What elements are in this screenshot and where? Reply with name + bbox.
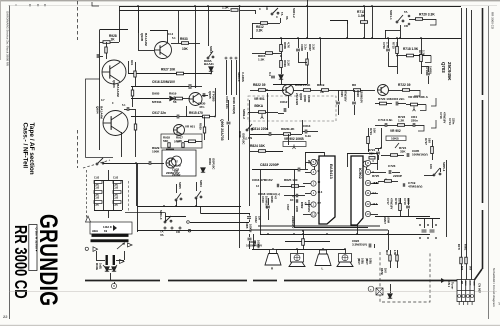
- svg-text:1000M: 1000M: [248, 224, 252, 233]
- scan top edge band: [0, 0, 500, 1]
- svg-text:VA: VA: [160, 233, 164, 237]
- page rule line top: [8, 5, 497, 7]
- svg-text:IC902: IC902: [358, 168, 363, 179]
- svg-text:C713 6.8n: C713 6.8n: [378, 118, 393, 122]
- wire S901-4: [165, 213, 167, 223]
- svg-text:C714: C714: [448, 118, 452, 125]
- svg-text:100M/16(V): 100M/16(V): [412, 153, 428, 157]
- svg-text:47: 47: [273, 196, 277, 200]
- wire H drops: [176, 184, 178, 193]
- svg-text:D90F: D90F: [238, 131, 242, 138]
- contact y231: [188, 229, 191, 232]
- wire x347: [347, 20, 349, 38]
- wire drop x138: [138, 6, 140, 33]
- wire rail V3: [471, 10, 473, 280]
- wire Q802 emitter: [288, 96, 290, 106]
- svg-text:R91: R91: [130, 60, 134, 66]
- wire row y62: [298, 62, 307, 64]
- svg-text:13: 13: [366, 212, 370, 216]
- svg-text:C717: C717: [386, 198, 390, 205]
- wire x135 drop: [135, 109, 137, 157]
- capacitor C815 symbol: [336, 102, 340, 104]
- order number box: [29, 225, 37, 271]
- wire H left border: [137, 163, 139, 232]
- svg-text:BA1A4M: BA1A4M: [100, 106, 104, 119]
- svg-text:C.92: C.92: [94, 177, 100, 180]
- wire R812 row: [252, 23, 261, 25]
- svg-text:CN 907: CN 907: [478, 283, 482, 293]
- svg-text:R725: R725: [372, 174, 380, 178]
- svg-text:Q904: Q904: [96, 106, 100, 114]
- svg-text:R824 33K: R824 33K: [250, 144, 265, 148]
- resistor R927 10K: [177, 72, 184, 75]
- switch S906: [96, 158, 104, 165]
- capacitor bar C2: [113, 255, 115, 265]
- svg-text:220M/: 220M/: [172, 173, 181, 177]
- wire x249 b: [249, 100, 251, 206]
- svg-text:3.3M/25(V): 3.3M/25(V): [352, 243, 367, 247]
- component X: [376, 288, 383, 295]
- transistor Q90B: [155, 42, 172, 59]
- jack J2 frame: [347, 153, 377, 155]
- svg-text:C822: C822: [254, 216, 258, 223]
- page right rule: [488, 6, 490, 319]
- resistor matrix block: [94, 181, 121, 204]
- svg-text:47n: 47n: [199, 105, 204, 109]
- svg-text:3.3K: 3.3K: [256, 29, 263, 33]
- capacitor C9xx at 249: [247, 217, 251, 219]
- speaker SP3: [320, 250, 327, 254]
- wire R927 row: [128, 73, 177, 75]
- capacitor sym under: [266, 206, 270, 208]
- svg-text:Q703: Q703: [441, 62, 446, 73]
- svg-text:CD: CD: [265, 6, 269, 10]
- svg-text:C.92: C.92: [113, 177, 119, 180]
- capacitor C901: [97, 54, 99, 58]
- head connector box: [90, 222, 132, 234]
- svg-text:Q906 2SA733: Q906 2SA733: [220, 119, 224, 141]
- tape head bar 1: [92, 234, 129, 237]
- svg-text:6.2n: 6.2n: [305, 134, 311, 138]
- svg-text:1.5K: 1.5K: [258, 58, 265, 62]
- resistor R928 1K: [103, 41, 110, 44]
- svg-text:22: 22: [3, 314, 8, 319]
- svg-text:C716: C716: [439, 112, 443, 119]
- arrow head marker: [86, 216, 91, 222]
- svg-text:R807: R807: [308, 44, 312, 51]
- svg-text:5.1: 5.1: [172, 36, 176, 40]
- svg-text:R826: R826: [270, 196, 274, 203]
- svg-text:R881: R881: [464, 244, 468, 251]
- wire R919: [131, 98, 169, 100]
- label CN 1 Tuner: [441, 278, 446, 283]
- IC1 pin 2: [311, 202, 316, 207]
- svg-text:R808: R808: [295, 83, 303, 87]
- svg-text:CN 1: CN 1: [447, 281, 451, 288]
- svg-text:R816: R816: [283, 60, 287, 67]
- svg-text:1000M /25V: 1000M /25V: [246, 243, 262, 247]
- gray fold line: [10, 291, 498, 293]
- svg-text:33K: 33K: [369, 152, 375, 156]
- svg-text:R933: R933: [180, 37, 188, 41]
- connector drops: [459, 302, 472, 306]
- svg-text:47M/16V: 47M/16V: [343, 90, 347, 102]
- svg-text:5.6K: 5.6K: [174, 140, 181, 144]
- dashed box M: [380, 252, 430, 302]
- capacitor pair grid: [422, 230, 427, 232]
- svg-text:CD: CD: [404, 24, 408, 28]
- svg-text:Q905: Q905: [208, 91, 212, 99]
- transistor Q903: [102, 60, 126, 84]
- IC2 pin 12: [365, 201, 370, 206]
- svg-text:C814 220n: C814 220n: [252, 127, 268, 131]
- svg-text:560: 560: [468, 266, 471, 271]
- wire drop x195: [195, 6, 197, 88]
- svg-text:R726: R726: [394, 198, 398, 205]
- svg-text:S905-1: S905-1: [442, 162, 446, 172]
- speaker SP4 boxed: [339, 254, 352, 263]
- svg-text:(MUT: (MUT: [357, 258, 361, 265]
- svg-text:2200: 2200: [295, 206, 299, 212]
- svg-text:25C945K: 25C945K: [447, 62, 452, 81]
- jack J1: [311, 160, 318, 167]
- wire hook CR4: [418, 125, 424, 131]
- svg-text:1.5K: 1.5K: [222, 6, 229, 10]
- wire rail heavy bend: [474, 269, 482, 280]
- IC1 pin 4: [311, 169, 316, 174]
- capacitor sym J2: [406, 206, 410, 208]
- svg-text:100M: 100M: [386, 216, 390, 224]
- svg-text:LCH: LCH: [468, 281, 470, 286]
- svg-text:S901-2: S901-2: [292, 8, 296, 18]
- svg-text:12: 12: [366, 202, 370, 206]
- svg-text:100M/16V: 100M/16V: [307, 200, 311, 212]
- diode D801 sym: [201, 168, 205, 172]
- svg-text:220n: 220n: [411, 118, 418, 122]
- svg-text:10.3: 10.3: [318, 191, 323, 194]
- transistor Q9xx small: [166, 158, 176, 168]
- svg-text:R720 10K: R720 10K: [378, 97, 393, 101]
- svg-text:1K0: 1K0: [383, 268, 387, 273]
- wire E bottom: [388, 66, 397, 68]
- svg-text:2.2K: 2.2K: [286, 60, 290, 67]
- svg-text:10K: 10K: [372, 128, 376, 134]
- IC2 pin 11: [365, 190, 370, 195]
- svg-text:C917 22n: C917 22n: [152, 111, 166, 115]
- registration marks top: [16, 4, 45, 6]
- svg-text:RR 3000 CD: RR 3000 CD: [10, 225, 29, 299]
- svg-text:FB: FB: [460, 281, 462, 284]
- wire y222 segment: [190, 222, 249, 224]
- resistor R933 10K: [182, 42, 189, 45]
- svg-text:3.3K: 3.3K: [311, 44, 315, 51]
- wire hook left: [92, 2, 99, 6]
- svg-text:VR 902 10KB: VR 902 10KB: [284, 137, 304, 141]
- svg-text:BA1A4M: BA1A4M: [144, 33, 148, 46]
- svg-text:RR 3000 CD: RR 3000 CD: [491, 12, 495, 30]
- svg-text:S905: S905: [178, 182, 182, 189]
- svg-text:C709: C709: [382, 42, 386, 49]
- svg-text:VR 901 50K A: VR 901 50K A: [408, 95, 429, 99]
- svg-text:1.2K: 1.2K: [398, 118, 405, 122]
- svg-text:Q90B: Q90B: [140, 33, 144, 42]
- svg-text:3.3n: 3.3n: [303, 44, 307, 50]
- svg-text:Tuner: Tuner: [450, 282, 454, 289]
- motor symbol: [172, 156, 182, 166]
- wire head down: [110, 273, 112, 281]
- svg-text:47: 47: [303, 202, 307, 205]
- resistor sym J: [399, 204, 402, 211]
- contact grid: [419, 224, 437, 239]
- wire IC bottoms: [294, 227, 368, 229]
- wire feed2: [258, 225, 380, 227]
- wire G drop: [381, 128, 383, 148]
- svg-text:S904: S904: [199, 180, 203, 187]
- wire Q90B base: [138, 50, 154, 52]
- svg-text:R718 1.5K: R718 1.5K: [403, 47, 419, 51]
- svg-text:1D: 1D: [290, 198, 293, 202]
- svg-text:RCH: RCH: [464, 281, 466, 286]
- connector CN907 box: [457, 280, 474, 302]
- svg-text:R8/R7: R8/R7: [383, 216, 387, 224]
- svg-text:R819: R819: [317, 83, 325, 87]
- svg-text:R822 39: R822 39: [253, 83, 266, 87]
- svg-text:ITP29B: ITP29B: [212, 91, 216, 102]
- triangle contact K3: [120, 260, 125, 264]
- contact VA: [171, 227, 173, 229]
- circle ground: [111, 283, 116, 288]
- svg-text:Cass.- / NF-Teil: Cass.- / NF-Teil: [22, 123, 29, 169]
- wire drop x239 long: [239, 6, 241, 248]
- wire S905-1: [424, 175, 434, 177]
- wire S901-1 drop: [400, 25, 402, 38]
- svg-text:56K: 56K: [163, 139, 169, 143]
- svg-text:S903: S903: [209, 46, 213, 53]
- svg-text:D905: D905: [152, 92, 160, 96]
- contact circle head: [85, 247, 88, 250]
- wire spk drops: [297, 249, 299, 254]
- svg-text:R8: R8: [352, 83, 356, 87]
- diode D806: [279, 75, 283, 79]
- wire y212 right: [375, 216, 430, 218]
- svg-text:C820: C820: [356, 90, 360, 97]
- wire x307: [307, 0, 309, 38]
- switch S901-2: [271, 8, 279, 15]
- IC1 pin 3: [311, 181, 316, 186]
- bracket a: [431, 98, 436, 106]
- speaker SP1: [270, 250, 277, 254]
- svg-text:CR2 22n: CR2 22n: [392, 97, 404, 101]
- tape head bar 2: [91, 239, 129, 242]
- svg-text:R825 180: R825 180: [284, 178, 298, 182]
- svg-text:5.1: 5.1: [122, 104, 126, 107]
- wire hook VR901b: [420, 105, 426, 111]
- svg-text:220n: 220n: [451, 118, 455, 125]
- svg-text:VA: VA: [285, 16, 289, 20]
- svg-text:0.4: 0.4: [268, 72, 272, 76]
- triangle contact K1: [93, 247, 98, 252]
- svg-text:12.0: 12.0: [373, 203, 378, 206]
- capacitor C820 symbol: [352, 102, 356, 104]
- wire drop x372: [372, 6, 374, 38]
- wire bus y280 heavy: [85, 280, 160, 282]
- motor box: [162, 150, 196, 176]
- svg-text:OSP10C: OSP10C: [211, 158, 215, 170]
- svg-text:140A D: 140A D: [103, 225, 112, 229]
- svg-text:R802: R802: [300, 202, 304, 209]
- wire top bus: [119, 6, 461, 8]
- svg-text:C815: C815: [340, 90, 344, 97]
- resistor above bus: [302, 239, 305, 246]
- dashed vertical H: [128, 181, 130, 212]
- wire long bus y38: [250, 38, 461, 40]
- svg-text:R919: R919: [169, 92, 177, 96]
- svg-text:R806: R806: [283, 42, 287, 49]
- wire IC2 drop: [357, 225, 359, 234]
- wire hook R718: [425, 56, 431, 63]
- svg-text:R721: R721: [369, 128, 373, 135]
- dashed link to head: [83, 160, 110, 168]
- svg-text:100K: 100K: [152, 150, 160, 154]
- svg-text:TA: TA: [404, 10, 408, 14]
- diode M: [388, 294, 392, 298]
- wire R933: [171, 43, 182, 45]
- svg-text:47M/16V: 47M/16V: [442, 112, 446, 123]
- IC2 box: [351, 156, 363, 225]
- svg-text:R715: R715: [392, 42, 396, 49]
- svg-text:100M/10V: 100M/10V: [264, 196, 268, 209]
- svg-text:10: 10: [366, 181, 370, 185]
- svg-text:160: 160: [427, 138, 431, 143]
- svg-text:12: 12: [312, 213, 316, 217]
- svg-text:R927 10K: R927 10K: [161, 68, 176, 72]
- svg-text:4.7K: 4.7K: [286, 42, 290, 49]
- dashed group volume: [248, 96, 336, 121]
- wire bus y234: [260, 234, 430, 236]
- capacitor C915: [127, 107, 129, 111]
- page left rule: [9, 6, 11, 320]
- svg-text:BA5413: BA5413: [329, 164, 334, 179]
- wire y241 segment: [285, 241, 330, 243]
- wire second bus: [119, 10, 230, 12]
- dashed vertical head: [86, 170, 88, 222]
- svg-text:C813: C813: [303, 124, 311, 128]
- svg-text:10K: 10K: [429, 164, 433, 169]
- svg-text:C723: C723: [388, 164, 396, 168]
- wire F verticals: [288, 134, 290, 145]
- bracket b: [431, 120, 436, 128]
- switch S90B: [246, 124, 253, 131]
- IC1 BA5413 box: [319, 156, 335, 224]
- svg-text:VR 902: VR 902: [390, 129, 401, 133]
- wire D90A: [211, 71, 213, 74]
- svg-text:VR 601: VR 601: [185, 125, 195, 129]
- svg-text:GARO/MARG Service Zw.-Stock 20: GARO/MARG Service Zw.-Stock 20/86 RR: [6, 11, 10, 66]
- svg-text:2SC2320: 2SC2320: [295, 93, 299, 105]
- wire rail heavy: [482, 8, 484, 95]
- svg-text:D801: D801: [208, 158, 212, 165]
- svg-text:C812: C812: [280, 100, 288, 104]
- svg-text:1K: 1K: [111, 37, 116, 41]
- wire H bottom: [137, 230, 250, 232]
- svg-text:Q802: Q802: [299, 93, 303, 100]
- svg-text:◇ Bts ★ 32700 ●: ◇ Bts ★ 32700 ●: [34, 227, 38, 252]
- box tone network: [161, 134, 202, 148]
- IC1 pin 1: [311, 190, 316, 195]
- capacitor C92x: [149, 161, 151, 165]
- wire S901-3 rails: [226, 60, 228, 95]
- svg-text:Schaltbild / Circuit diagram: Schaltbild / Circuit diagram: [492, 268, 496, 307]
- wire y212 left: [125, 212, 165, 214]
- contact TA: [164, 227, 166, 229]
- svg-text:GND: GND: [473, 281, 475, 286]
- transistor Q904: [103, 111, 128, 136]
- svg-text:2x(B): 2x(B): [99, 263, 102, 269]
- svg-text:C718: C718: [403, 198, 407, 205]
- wire H bus: [137, 206, 241, 208]
- svg-text:10KB: 10KB: [391, 137, 400, 141]
- svg-text:47M/16V: 47M/16V: [389, 198, 393, 209]
- svg-text:C823 2200P: C823 2200P: [260, 163, 280, 167]
- svg-text:C-106S: C-106S: [241, 72, 245, 82]
- svg-text:560: 560: [460, 266, 463, 271]
- head lever arrow: [117, 243, 125, 249]
- resistor R721 symbol: [367, 137, 370, 144]
- wire grid frame: [416, 218, 440, 220]
- transistor Q802: [283, 85, 294, 96]
- IC2 pin 9: [365, 169, 370, 174]
- svg-text:HIGH: HIGH: [92, 230, 98, 233]
- svg-text:2200P: 2200P: [393, 174, 402, 178]
- svg-text:C819: C819: [261, 196, 265, 203]
- speaker SP2 boxed: [291, 254, 304, 263]
- diode pair DK: [103, 265, 117, 270]
- svg-text:C808: C808: [300, 44, 304, 51]
- svg-text:S90B-2: S90B-2: [242, 109, 246, 119]
- svg-text:10.3: 10.3: [168, 32, 174, 36]
- vertical drops I: [260, 169, 262, 234]
- scan left edge sliver: [0, 0, 1, 60]
- svg-text:10B): 10B): [368, 258, 372, 264]
- wire Q905 wires: [202, 95, 208, 97]
- junction: [163, 205, 165, 207]
- svg-text:C916 220M/10V: C916 220M/10V: [152, 80, 176, 84]
- svg-text:C817: C817: [286, 204, 290, 211]
- wire block A left border: [99, 30, 101, 151]
- svg-text:R87B: R87B: [380, 268, 384, 275]
- wire y213 segment: [200, 206, 202, 214]
- contacts S901-3: [225, 57, 237, 59]
- jack J1 frame: [305, 152, 324, 154]
- IC2 pin 13: [365, 211, 370, 216]
- svg-text:R722 39: R722 39: [398, 83, 411, 87]
- svg-text:S901-3: S901-3: [237, 72, 241, 82]
- svg-text:Q903: Q903: [112, 80, 116, 88]
- svg-text:MT291: MT291: [152, 100, 162, 104]
- svg-text:56: 56: [173, 100, 177, 104]
- wire mid drop: [186, 106, 188, 117]
- triangle contact K2: [128, 243, 133, 247]
- svg-text:L: L: [322, 267, 324, 271]
- svg-text:R1TI: R1TI: [457, 244, 461, 250]
- IC1 pin 5: [311, 159, 316, 164]
- svg-text:(MUT: (MUT: [365, 258, 369, 265]
- svg-text:MADE: MADE: [95, 263, 98, 270]
- wire rail V2: [466, 8, 468, 257]
- svg-text:47M/16(V): 47M/16(V): [408, 185, 422, 189]
- wire L feed: [253, 234, 255, 249]
- svg-text:R915 470: R915 470: [189, 111, 203, 115]
